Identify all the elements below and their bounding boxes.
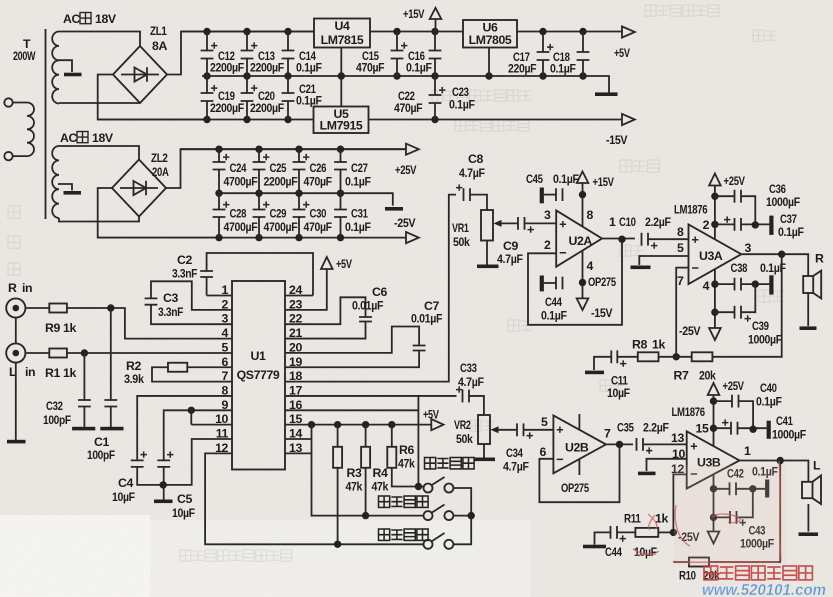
wire C34 to U2B pin5 [524,429,554,431]
wire U6 gnd stem [488,48,490,77]
node U3B C42 [710,485,717,492]
label C33 [458,361,484,389]
capacitor C24 [213,154,230,170]
label C42 [727,465,778,481]
wire pin13 stub [285,452,312,454]
label R6 [398,443,415,471]
node U3B C43 [710,514,717,521]
label C7 [411,299,443,326]
resistor R8 [638,352,659,361]
ground VR2 [474,458,495,462]
wire C45 link [544,194,556,196]
-25V arrow U3B [708,532,720,544]
wire C18 stems [582,32,584,77]
wire C1 branch [110,308,112,427]
junction dots rail A [203,28,586,35]
capacitor C3 [145,298,158,304]
label C25 [264,161,299,189]
wire R11 to C44 [617,531,635,533]
wire pin1 stub [207,295,232,297]
capacitor C33 [456,386,469,402]
wire pin14 stub [285,438,312,440]
label C44 lower [605,545,657,559]
wire U3B pin12 stub [673,474,686,532]
+25V arrow U3A [709,174,721,186]
label R in [8,281,32,295]
rail E -25V [98,237,406,239]
junction dots rail B [203,72,586,79]
wire U5 gnd stem [340,76,342,107]
wire R1 to pin5 [67,352,232,354]
label C21 [296,82,322,108]
wire C19 stems [206,76,208,120]
wire ZL1 pos to rail A [167,32,314,75]
IC U1 QS7779 [232,281,285,470]
op-amp U2A [556,210,602,266]
wire pin17 through C33 [285,396,484,415]
pot VR1 [481,210,493,241]
wire pin21 stub [285,322,366,339]
node R4 direct wire [362,512,369,519]
wire R7 feedback [712,254,781,357]
wire C10 to U3A [648,238,689,240]
label C12 [210,49,245,75]
capacitor C43 [730,511,746,526]
center tap 2 wire [58,184,72,191]
wire U2B V- stub [578,459,580,475]
ground U3B pin10 [638,472,656,476]
wire C21 stems [287,76,289,120]
capacitor C41 [722,419,738,434]
label L in [9,365,35,379]
label C15 [356,49,385,75]
capacitor C37 [724,216,741,230]
center tap 1 bar [64,73,82,77]
regulator U4 LM7815 [314,19,370,48]
node pins 9-10 [188,407,195,414]
node U2B output [616,441,623,448]
resistor R7 [692,352,713,361]
center tap 2 bar [64,191,82,195]
label R8 [632,338,665,352]
capacitor C22 [429,87,446,103]
label C34 [503,446,529,474]
resistor R4 [361,447,370,468]
+15V arrow U2A [577,172,589,184]
label C17 [508,50,537,76]
transformer primary winding [4,98,34,160]
label C44 upper [541,295,567,323]
node U3A C38 [711,280,718,287]
resistor R10 [689,558,709,567]
transformer secondary winding 1 [52,32,59,104]
node U3A output [778,251,785,258]
junction dots rail C [215,146,344,153]
label C43 [740,524,775,551]
capacitor C18 [577,52,590,60]
ground rail B [595,92,618,96]
wire U3B V- stub [713,475,715,532]
wire pin12 to boost switch [205,453,424,544]
wire C41 branch [714,427,767,429]
label C28 [224,207,259,235]
wire U3A pin7 feedback stub [676,268,688,357]
capacitor C6 [359,317,372,322]
capacitor C17 [537,44,554,60]
resistor R9 [49,304,67,313]
capacitor C16 [429,51,442,59]
label C36 [766,182,801,209]
wire C42 branch [714,488,766,490]
+5V arrow U1 [321,257,333,269]
op-amp U2B [553,416,606,474]
label C32 [43,399,72,427]
capacitor C13 [241,42,258,58]
speaker R [803,271,821,299]
node U3A C36 [711,193,718,200]
wire C32 branch [83,353,85,427]
wire pin2 stub and C3 top loop [151,281,232,310]
red pen highlight wash [674,465,786,565]
wire pin6 stub to R2 [187,366,232,368]
label C20 [250,89,285,115]
RCA jack R in [6,298,25,317]
wire U3B V+ stub [713,395,715,446]
node C36 C37 tie [752,221,759,228]
ground speaker L [799,532,819,536]
ground bar C37 [769,216,773,235]
label mute switch (jing yin kai guan) [425,458,475,469]
resistor R11 [635,528,658,537]
node U2A V+ C45 [579,191,586,198]
node R6 mute wire [415,483,422,490]
label direct switch (zhi tong kai guan) [379,496,429,507]
+25V arrow [406,144,419,155]
ground C5 [154,500,173,504]
wire sec2 bottom to ZL2 [59,217,139,222]
wire R10 feedback [709,461,780,563]
wire C28 stems [218,193,220,237]
wire C15 stems [396,32,398,77]
pot VR2 [478,415,490,444]
wire wiper to C9 [501,222,518,224]
ground C44 lower [583,545,606,549]
-25V arrow U3A [709,328,721,340]
wire R9 to pin4 bend [67,308,232,339]
label C23 [449,85,475,112]
ground C32 [72,427,95,431]
rail A unregulated + [181,31,622,33]
wire R2 left loop to pin7 [152,367,232,381]
wire pin3 stub and C3 bottom [151,305,232,325]
wire U4 gnd stem [340,48,342,77]
wire C14 stems [287,32,289,77]
wire speaker R ground [807,293,809,326]
watermark red chinese text [704,566,812,580]
wire pins16-17 tie down to mute [417,396,419,487]
ground C1 [100,427,123,431]
-15V arrow U2A [577,298,589,310]
wire ZL2 neg to rail E [98,188,219,238]
label R7 [674,369,717,383]
label C24 [224,161,259,189]
resistor R3 [333,447,342,468]
wire U3A output [741,254,808,276]
wire C37 branch [715,223,770,225]
wire R8 to C11 [617,356,638,358]
node C40 C41 tie [749,426,756,433]
wire C36 branch [715,196,755,225]
capacitor C20 [241,85,258,101]
label C26 [304,161,333,189]
VR1 wiper arrow [494,220,502,227]
node U2A output [618,236,625,243]
node U3B C40 [710,397,717,404]
label C5 [172,492,195,520]
wire pin23 to +5V [285,269,327,310]
wire C40 branch [714,401,754,430]
wire C24 stems [218,149,220,193]
-25V arrow [406,232,419,243]
capacitor C31 [334,210,347,218]
label AC dual 18V winding 1 [63,12,117,26]
junction dots rail D [215,190,344,197]
label VR2 [454,418,473,446]
wire C16 stems [434,32,436,77]
label C45 [526,172,579,186]
label C4 [112,476,135,504]
capacitor C34 [517,423,533,438]
capacitor C39 [735,306,751,322]
label VR1 [452,221,470,249]
label C22 [394,89,423,115]
label C3 [158,291,184,319]
capacitor C9 [518,217,534,233]
capacitor C10 [642,233,658,249]
wire U3B output [740,461,809,482]
wire C8 to VR1 [470,195,487,210]
label C40 [756,381,782,409]
wire +15V arrow stem [435,19,437,32]
U1 pin numbers right [289,283,302,455]
node R7 R8 pin7 [673,353,680,360]
capacitor C40 [732,395,739,408]
label C29 [264,207,299,235]
label R10 [679,569,720,583]
capacitor C27 [334,162,347,170]
wire switch commons [453,488,471,544]
wire pin22 C6 loop [285,297,366,324]
wire C39 branch [715,284,755,312]
wire U2A V- stub [582,251,584,299]
wire R4 stems [365,425,367,516]
wire U3A V- stub [714,270,716,329]
wire C17 stems [542,32,544,77]
node U3A C37 [711,221,718,228]
wire pin10 tie [191,410,232,424]
node U3B output [777,457,784,464]
capacitor C28 [213,201,230,217]
node R11 junction [670,529,677,536]
wire C31 stems [340,193,342,237]
node U3A C39 [711,309,718,316]
+5V arrow pin15 [431,419,443,430]
junction dots pin15 line [308,421,396,428]
power amp U3B [687,431,740,488]
capacitor C12 [201,42,218,58]
wire C26 stems [298,149,300,193]
wire pin20 C7 loop [285,327,419,353]
wire pin18 to C8 [285,195,456,382]
node C42 C43 tie [749,485,756,492]
capacitor C14 [282,51,295,59]
wire C27 stems [340,149,342,193]
-15V output arrow [622,114,635,125]
node U3B C41 [710,425,717,432]
node C4 C5 junction [160,481,167,488]
label C6 [352,285,387,313]
capacitor C15 [391,42,408,58]
wire ZL2 pos to rail C [166,149,406,188]
ground C11 [585,371,604,375]
wire R in to R9 [25,307,49,309]
label C39 [748,319,783,347]
capacitor C1 [104,400,117,407]
wire U2A output [602,238,635,240]
junction dots rail F [203,116,438,123]
junction dots rail E [215,234,344,241]
transformer secondary winding 2 [52,146,59,218]
label R3 [346,466,363,494]
wire pin9 to C5 [164,410,232,460]
label C13 [250,49,285,75]
label C9 [497,239,523,266]
wire C22 stems [434,76,436,120]
resistor R1 [49,349,67,358]
capacitor C2 [200,271,213,277]
wire VR2 to ground [483,444,485,458]
wire R6 stems [392,425,424,487]
capacitor C32 [78,400,91,407]
capacitor C19 [201,85,218,101]
label C2 [172,253,198,281]
wire R10 to R11 node [673,561,689,563]
capacitor C5 [157,451,173,467]
node L channel input [81,349,88,356]
wire R7 to node [659,356,692,358]
rail B common 0V [202,76,609,93]
label C14 [296,49,322,75]
label C19 [210,89,245,115]
red pen trace marks [633,461,781,576]
capacitor C21 [282,93,295,101]
ground U3A pin5 [631,266,651,270]
capacitor C38 [735,278,742,291]
wire pin16 stub [285,409,418,411]
wire sec1 top to ZL1 [59,32,140,47]
wire sec2 top to ZL2 [59,146,139,160]
wire R3 stems [337,425,339,545]
wire U2B V+ stub [578,414,580,430]
wire pin15 +5V line [285,424,431,426]
capacitor C4 [131,451,147,467]
label AC dual 18V winding 2 [60,131,114,145]
capacitor C35 [637,438,653,454]
wire pin8 to C4 [137,396,232,460]
wire C9 to U2A pin3 [525,222,557,224]
label C8 [459,152,485,180]
wire C44 to ground [595,532,611,544]
wire C29 stems [258,193,260,237]
wire sec1 bottom to ZL1 [59,102,140,104]
rail D common2 [219,193,393,205]
wire U2A feedback [528,239,622,325]
center tap 1 wire [58,60,72,72]
capacitor C44 lower [611,526,626,542]
switch mute (jingyin) [424,477,454,493]
bridge rectifier ZL2 [112,160,166,217]
node R3 boost wire [334,541,341,548]
wire wiper to C34 [498,429,517,431]
wire C35 to U3B [643,443,687,445]
U1 pin numbers left [215,283,228,455]
node C38 C39 tie [752,280,759,287]
ground bar C38 [769,275,773,294]
capacitor C8 [456,184,470,201]
label C35 [617,421,669,435]
wire C13 stems [246,32,248,77]
wire pin19 stub [285,351,419,368]
wire C38 branch [715,283,770,285]
speaker L [802,476,821,505]
transformer T core [45,29,47,219]
label C30 [304,207,333,235]
capacitor C26 [293,154,310,170]
wire R11 to node [658,531,673,533]
+25V arrow U3B [708,383,720,395]
label R9 [45,321,76,335]
label C37 [778,212,804,239]
switch direct (zhitong) [424,505,454,521]
wire U3A pin5 to ground [639,256,688,265]
regulator U6 LM7805 [463,20,517,48]
ground bar C42 [765,480,769,498]
label C1 [87,435,116,462]
wire U2B output [606,443,633,445]
regulator U5 LM7915 [314,107,369,134]
wire VR1 to ground [486,241,488,265]
label C41 [772,414,807,442]
capacitor C36 [735,190,742,203]
wire U2B feedback [539,444,619,502]
ground speaker R [800,326,817,330]
resistor R6 [387,447,396,468]
wire ZL1 neg to rail [98,75,206,120]
label boost switch (zeng qiang kai guan) [379,529,429,540]
wire jack shield chain [15,318,17,440]
wire U3B pin10 to ground [647,459,687,471]
switch boost (zengqiang) [424,533,454,549]
capacitor C7 [413,346,426,351]
wire C2 loop [207,253,313,296]
wire C4 bottom [137,467,163,485]
label R1 [45,366,76,380]
label R2 [124,359,144,386]
wire C30 stems [298,193,300,237]
rail C +25V [181,148,407,150]
label C18 [550,50,576,76]
label R11 [624,512,668,526]
